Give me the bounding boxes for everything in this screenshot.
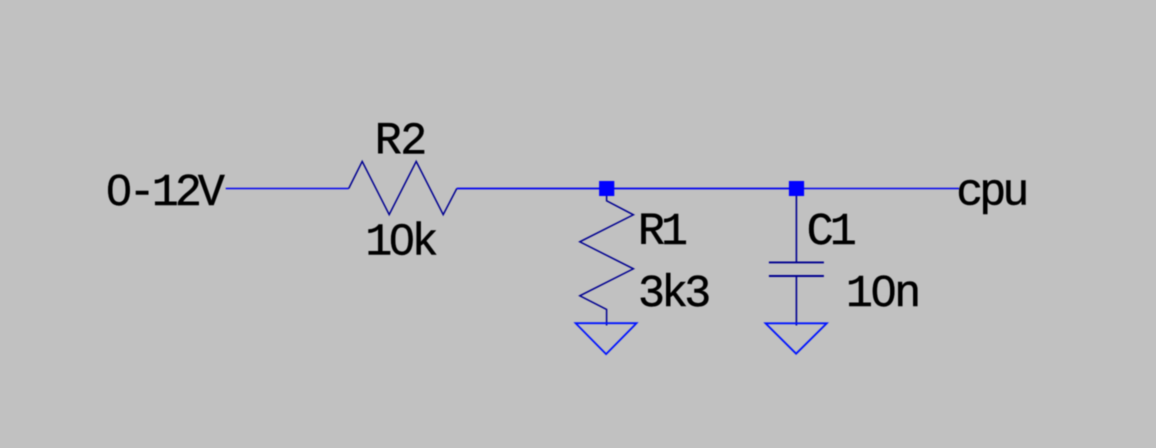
svg-text:C1: C1 [807, 207, 855, 258]
zero glyph counter patch (10n) [879, 287, 887, 296]
svg-text:3k3: 3k3 [638, 269, 709, 320]
wire [607, 188, 797, 190]
wire [796, 188, 959, 190]
zero glyph counter patch (0-12V) [115, 186, 123, 195]
ground under C1 [766, 323, 827, 353]
wire [226, 188, 349, 190]
node junction 1 [599, 181, 614, 196]
svg-text:0-12V: 0-12V [106, 168, 225, 219]
resistor R1 [580, 196, 634, 326]
svg-text:R1: R1 [638, 207, 686, 258]
svg-text:cpu: cpu [956, 167, 1026, 218]
svg-text:R2: R2 [375, 116, 426, 167]
resistor R2 [349, 161, 457, 214]
ground under R1 [576, 323, 637, 354]
node junction 2 [789, 181, 804, 196]
zero glyph counter patch (10k) [397, 236, 405, 245]
wire [457, 188, 607, 190]
capacitor C1 [769, 196, 824, 326]
